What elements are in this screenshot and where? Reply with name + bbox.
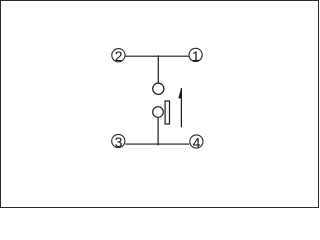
svg-text:4: 4	[193, 134, 201, 150]
svg-text:2: 2	[115, 48, 123, 64]
svg-text:3: 3	[115, 134, 123, 150]
svg-text:1: 1	[192, 48, 200, 64]
